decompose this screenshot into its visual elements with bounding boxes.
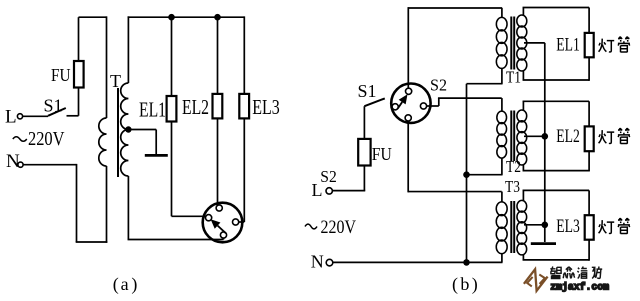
svg-text:220V: 220V <box>28 129 65 150</box>
svg-text:S1: S1 <box>358 81 377 101</box>
svg-text:L: L <box>312 180 323 200</box>
svg-text:N: N <box>311 251 324 271</box>
svg-text:(: ( <box>113 274 119 295</box>
svg-text:FU: FU <box>372 144 392 164</box>
svg-text:EL1: EL1 <box>556 35 580 56</box>
svg-text:220V: 220V <box>321 217 357 238</box>
svg-text:T1: T1 <box>506 68 521 87</box>
svg-text:T: T <box>110 71 121 91</box>
svg-text:EL1: EL1 <box>139 97 166 121</box>
svg-text:S2: S2 <box>320 167 337 186</box>
svg-text:(: ( <box>452 274 458 295</box>
svg-text:): ) <box>131 274 137 295</box>
svg-text:S2: S2 <box>430 76 447 95</box>
svg-text:): ) <box>472 274 478 295</box>
svg-text:N: N <box>6 151 20 172</box>
svg-text:T3: T3 <box>505 177 520 196</box>
svg-text:S1: S1 <box>44 96 63 116</box>
svg-text:zmjaxf.com: zmjaxf.com <box>550 281 609 292</box>
svg-text:EL3: EL3 <box>252 95 279 119</box>
svg-text:T2: T2 <box>506 157 521 176</box>
svg-text:b: b <box>460 274 469 294</box>
svg-text:EL2: EL2 <box>182 95 209 119</box>
svg-text:FU: FU <box>51 65 71 85</box>
svg-text:EL3: EL3 <box>556 216 580 237</box>
svg-text:a: a <box>121 274 129 294</box>
svg-text:L: L <box>5 107 17 128</box>
svg-text:EL2: EL2 <box>556 126 580 147</box>
